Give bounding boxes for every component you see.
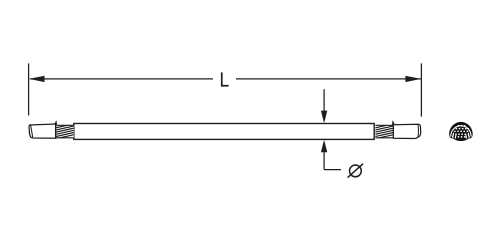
strand bundle right band bbox=[375, 126, 393, 138]
ferrule right bbox=[393, 124, 420, 138]
cross-section hatch gap right outer bbox=[468, 132, 470, 138]
cross-section hatch gap left inner bbox=[455, 134, 457, 139]
arrowhead left of dimension L bbox=[29, 76, 45, 82]
cross-section strand dots bbox=[454, 125, 469, 138]
ferrule right tip facet line bbox=[417, 125, 419, 137]
strand bundle left bottom edge bbox=[56, 137, 74, 139]
diameter leader top vertical line bbox=[323, 89, 325, 111]
diameter leader bottom vertical line bbox=[323, 152, 325, 170]
strand bundle left top edge bbox=[56, 124, 74, 126]
strand section right hatching bbox=[375, 124, 394, 139]
diameter symbol circle bbox=[350, 165, 362, 177]
diameter symbol slash bbox=[348, 164, 364, 178]
cross-section outer body bbox=[449, 122, 473, 141]
strand bundle right bottom edge bbox=[375, 137, 393, 139]
ferrule left bbox=[29, 124, 55, 138]
ferrule left crimp spike bbox=[55, 122, 57, 125]
cross-section inner white separation arc bbox=[451, 126, 471, 137]
ferrule left tip facet line bbox=[31, 125, 33, 137]
diameter leader horizontal line bbox=[324, 169, 341, 171]
extension line right bbox=[420, 63, 422, 116]
strand section left hatching bbox=[55, 124, 74, 139]
extension line left bbox=[28, 63, 30, 115]
strand bundle left band bbox=[56, 126, 74, 138]
label L bbox=[221, 72, 229, 86]
arrowhead up onto cable bottom bbox=[321, 140, 327, 153]
arrowhead down onto cable top bbox=[321, 111, 327, 124]
cross-section hatch gap right inner bbox=[465, 134, 467, 139]
strand bundle right top edge bbox=[375, 124, 393, 126]
cable cross-section end view bbox=[449, 122, 473, 141]
ferrule right crimp spike bbox=[392, 122, 394, 125]
cross-section hatch gap left outer bbox=[452, 132, 454, 138]
dimension line L right segment bbox=[236, 78, 421, 80]
dimension line L left segment bbox=[30, 78, 213, 80]
arrowhead right of dimension L bbox=[405, 76, 421, 82]
cable insulation body bbox=[74, 124, 374, 140]
